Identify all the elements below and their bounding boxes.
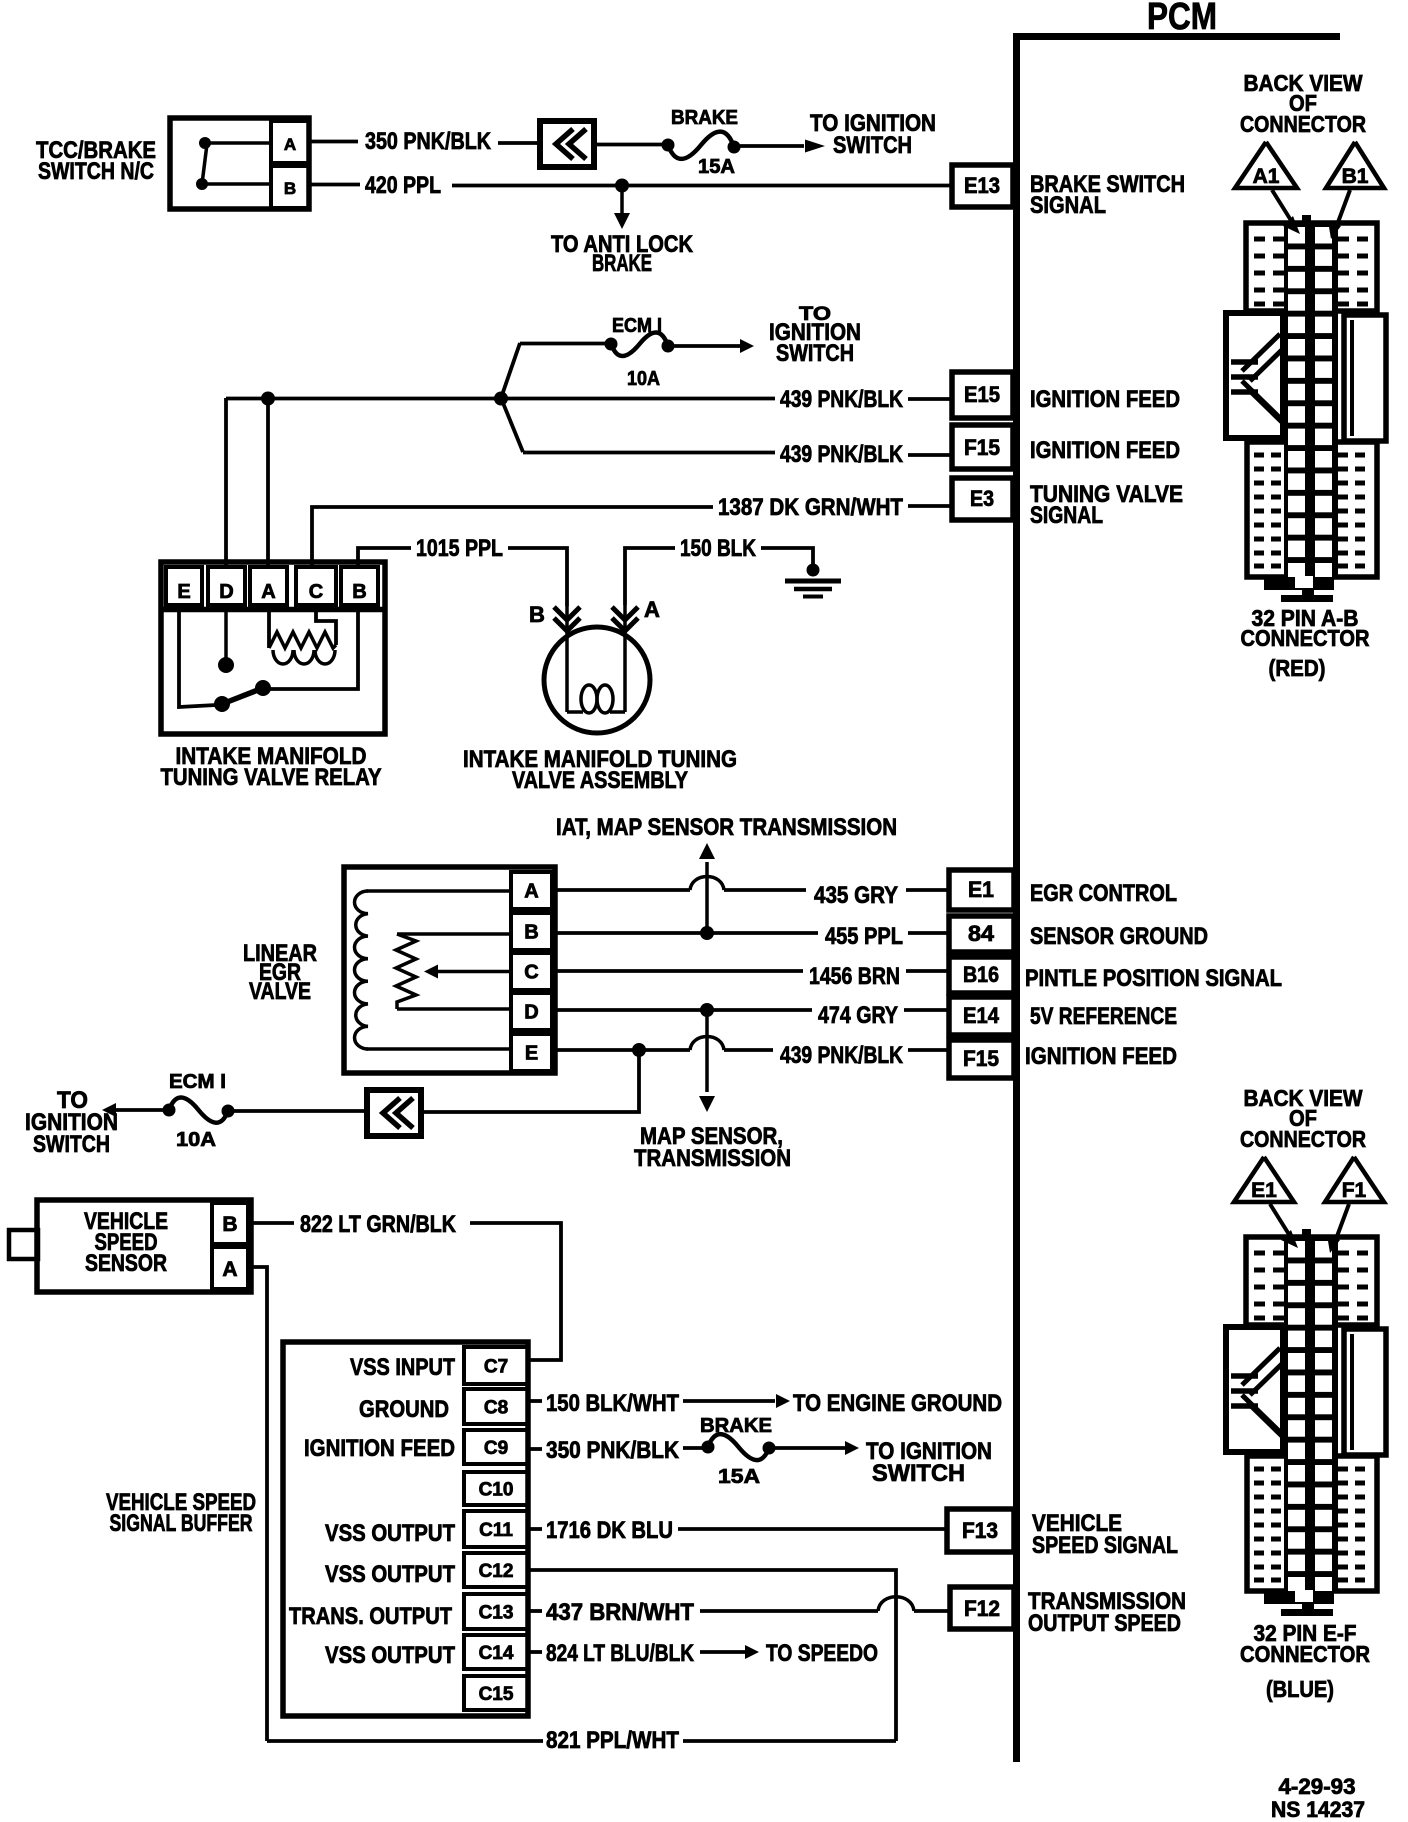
svg-text:B: B [222, 1213, 237, 1236]
svg-text:4-29-93: 4-29-93 [1279, 1774, 1356, 1799]
vehicle speed signal buffer [106, 1342, 528, 1716]
svg-text:474 GRY: 474 GRY [818, 1002, 898, 1029]
PCM pin E14 [949, 997, 1177, 1035]
svg-text:BRAKE: BRAKE [592, 250, 652, 277]
svg-text:A: A [261, 581, 275, 603]
svg-text:E: E [525, 1043, 538, 1065]
relay K1 intake manifold tuning valve relay [161, 562, 386, 791]
svg-text:C11: C11 [479, 1520, 513, 1541]
wire 1716 DK BLU [528, 1517, 947, 1544]
svg-text:420 PPL: 420 PPL [365, 172, 441, 199]
svg-text:IAT, MAP SENSOR TRANSMISSION: IAT, MAP SENSOR TRANSMISSION [556, 814, 897, 841]
svg-text:F1: F1 [1342, 1179, 1367, 1202]
arrow to anti lock brake [551, 189, 694, 277]
wire 455 PPL [552, 923, 949, 950]
svg-text:IGNITION FEED: IGNITION FEED [304, 1435, 455, 1462]
svg-text:84: 84 [968, 921, 995, 946]
wire 474 GRY [552, 1002, 949, 1029]
svg-text:GROUND: GROUND [359, 1396, 449, 1423]
svg-text:SIGNAL BUFFER: SIGNAL BUFFER [110, 1510, 253, 1537]
svg-text:IGNITION FEED: IGNITION FEED [1030, 386, 1180, 413]
wire to fuse [594, 143, 662, 147]
svg-text:E3: E3 [970, 486, 994, 511]
wire C12 VSS output loop [528, 1570, 896, 1741]
wire 439 PNK/BLK to E15 [503, 386, 952, 413]
wire 821 PPL/WHT [267, 1727, 896, 1754]
svg-text:ECM I: ECM I [169, 1071, 226, 1093]
svg-text:C12: C12 [479, 1561, 514, 1582]
svg-text:SWITCH: SWITCH [776, 340, 854, 367]
svg-text:437 BRN/WHT: 437 BRN/WHT [546, 1599, 694, 1626]
label 32 pin E-F connector [1240, 1620, 1370, 1702]
svg-text:1716 DK BLU: 1716 DK BLU [546, 1517, 673, 1544]
svg-text:A: A [284, 135, 296, 154]
svg-text:D: D [219, 581, 233, 603]
wire 821 PPL/WHT riser from sensor pin A [248, 1267, 267, 1741]
svg-text:TO SPEEDO: TO SPEEDO [766, 1640, 878, 1667]
svg-text:5V REFERENCE: 5V REFERENCE [1030, 1003, 1177, 1030]
svg-text:CONNECTOR: CONNECTOR [1240, 1641, 1370, 1667]
svg-text:SENSOR: SENSOR [85, 1250, 167, 1277]
switch TCC/brake switch N/C [36, 118, 309, 209]
arrow to ignition switch (upper) [674, 304, 861, 367]
connector key B1 [1326, 142, 1384, 239]
svg-text:C15: C15 [479, 1684, 514, 1705]
svg-text:IGNITION FEED: IGNITION FEED [1030, 437, 1180, 464]
svg-text:455 PPL: 455 PPL [825, 923, 903, 950]
svg-text:CONNECTOR: CONNECTOR [1240, 1126, 1366, 1152]
svg-text:C13: C13 [479, 1603, 514, 1624]
PCM pin E13 [952, 165, 1185, 219]
arrow to ignition switch (lower left) [25, 1087, 164, 1158]
PCM label [1147, 0, 1217, 38]
svg-text:A: A [524, 881, 538, 903]
svg-text:F15: F15 [963, 1046, 999, 1071]
svg-text:B: B [284, 179, 296, 198]
wire 150 BLK [625, 535, 820, 605]
32-pin E-F connector (blue) back view [1226, 1085, 1386, 1616]
wire 439 PNK/BLK to F15 (EGR) [552, 1037, 949, 1070]
svg-text:BRAKE: BRAKE [700, 1415, 772, 1437]
svg-text:VALVE ASSEMBLY: VALVE ASSEMBLY [512, 767, 688, 794]
svg-text:821 PPL/WHT: 821 PPL/WHT [546, 1727, 679, 1754]
svg-text:C: C [309, 581, 323, 603]
svg-text:C14: C14 [479, 1643, 514, 1664]
connector key E1 [1234, 1157, 1298, 1248]
wire 824 LT BLU/BLK [528, 1640, 878, 1667]
svg-text:SPEED SIGNAL: SPEED SIGNAL [1032, 1532, 1178, 1559]
svg-text:439 PNK/BLK: 439 PNK/BLK [780, 1042, 904, 1069]
svg-text:VALVE: VALVE [249, 978, 311, 1005]
svg-text:C10: C10 [479, 1480, 514, 1501]
svg-text:VSS OUTPUT: VSS OUTPUT [325, 1642, 455, 1669]
svg-text:SWITCH: SWITCH [33, 1131, 110, 1158]
svg-text:E15: E15 [964, 382, 1000, 407]
junction on 455 PPL [700, 926, 714, 940]
svg-text:PCM: PCM [1147, 0, 1217, 38]
svg-text:15A: 15A [718, 1466, 760, 1488]
wire 437 BRN/WHT [528, 1597, 950, 1626]
junction on 474 GRY [700, 1003, 714, 1017]
svg-text:VSS OUTPUT: VSS OUTPUT [325, 1561, 455, 1588]
inline connector symbol (350 PNK/BLK) [540, 121, 594, 167]
PCM pin E1 [949, 870, 1177, 910]
svg-text:C9: C9 [484, 1438, 508, 1459]
svg-text:B: B [529, 602, 545, 627]
svg-text:150 BLK/WHT: 150 BLK/WHT [546, 1390, 679, 1417]
drawing number [1271, 1774, 1365, 1822]
wire ignition feed trunk [226, 343, 523, 567]
svg-text:(RED): (RED) [1269, 655, 1326, 681]
wire 350 PNK/BLK (buffer) [528, 1437, 704, 1464]
connector key F1 [1325, 1157, 1384, 1253]
svg-text:CONNECTOR: CONNECTOR [1241, 625, 1370, 651]
fuse BRAKE 15A [662, 107, 741, 178]
PCM pin F12 [950, 1587, 1186, 1637]
PCM pin 84 [949, 916, 1208, 952]
arrow to IAT MAP sensor transmission [556, 814, 897, 933]
svg-text:F12: F12 [964, 1596, 1000, 1621]
svg-text:SWITCH N/C: SWITCH N/C [38, 158, 154, 185]
svg-text:VSS OUTPUT: VSS OUTPUT [325, 1520, 455, 1547]
svg-text:A: A [222, 1258, 237, 1281]
wire 439 PNK/BLK to F15 [523, 441, 952, 468]
wire 150 BLK/WHT [528, 1390, 1002, 1417]
fuse ECM I 10A (upper) [520, 315, 675, 390]
arrow to MAP sensor transmission [634, 1010, 791, 1172]
svg-text:A1: A1 [1253, 165, 1280, 188]
wire 350 PNK/BLK [309, 128, 540, 155]
arrow to ignition switch [740, 110, 936, 159]
connector key A1 [1235, 142, 1300, 234]
svg-text:B: B [352, 581, 366, 603]
svg-text:15A: 15A [698, 156, 735, 178]
svg-text:TO ENGINE GROUND: TO ENGINE GROUND [793, 1390, 1002, 1417]
svg-text:B1: B1 [1342, 165, 1369, 188]
svg-text:PINTLE POSITION SIGNAL: PINTLE POSITION SIGNAL [1025, 965, 1282, 992]
svg-text:SWITCH: SWITCH [833, 132, 912, 159]
svg-text:(BLUE): (BLUE) [1266, 1676, 1334, 1702]
wire 420 PPL [309, 172, 952, 199]
svg-text:OUTPUT SPEED: OUTPUT SPEED [1028, 1610, 1181, 1637]
wire 1015 PPL [358, 535, 567, 606]
svg-text:150 BLK: 150 BLK [680, 535, 757, 562]
ground [785, 581, 841, 597]
PCM boundary line [1013, 33, 1340, 1762]
svg-text:SWITCH: SWITCH [872, 1460, 965, 1487]
label 32 pin A-B connector [1241, 605, 1370, 681]
svg-text:C: C [524, 962, 538, 984]
svg-text:E: E [177, 581, 190, 603]
PCM pin E15 [952, 372, 1180, 418]
PCM pin E3 [952, 478, 1183, 529]
svg-text:TRANS. OUTPUT: TRANS. OUTPUT [289, 1603, 452, 1630]
PCM pin F15 (lower) [949, 1040, 1177, 1078]
arrow to ignition switch (buffer) [773, 1438, 992, 1487]
PCM pin F15 [952, 425, 1180, 469]
svg-text:TRANSMISSION: TRANSMISSION [634, 1145, 791, 1172]
svg-text:IGNITION FEED: IGNITION FEED [1025, 1043, 1177, 1070]
svg-text:CONNECTOR: CONNECTOR [1240, 111, 1366, 137]
svg-text:VSS INPUT: VSS INPUT [350, 1354, 455, 1381]
svg-text:1015 PPL: 1015 PPL [416, 535, 503, 562]
svg-text:A: A [644, 597, 660, 622]
junction ignition feed split [494, 392, 508, 406]
svg-text:C8: C8 [484, 1398, 508, 1419]
intake manifold tuning valve assembly [463, 597, 737, 794]
linear EGR valve [243, 867, 555, 1073]
inline connector symbol (ignition feed) [367, 1090, 421, 1136]
svg-text:D: D [524, 1002, 538, 1024]
svg-text:E1: E1 [1251, 1179, 1277, 1202]
fuse BRAKE 15A (buffer) [700, 1415, 776, 1488]
svg-text:435 GRY: 435 GRY [814, 882, 898, 909]
PCM pin B16 [949, 957, 1282, 993]
svg-text:439 PNK/BLK: 439 PNK/BLK [780, 441, 904, 468]
junction on 439 PNK/BLK [632, 1043, 646, 1057]
svg-text:F15: F15 [964, 435, 1000, 460]
svg-text:10A: 10A [176, 1129, 216, 1151]
junction on 420 PPL [615, 179, 629, 193]
svg-text:C7: C7 [484, 1357, 508, 1378]
svg-text:350 PNK/BLK: 350 PNK/BLK [365, 128, 492, 155]
svg-text:SENSOR GROUND: SENSOR GROUND [1030, 923, 1208, 950]
svg-text:E13: E13 [964, 173, 1000, 198]
wire 435 GRY [552, 877, 949, 910]
vehicle speed sensor [9, 1200, 251, 1292]
wire 1387 DK GRN/WHT [312, 494, 952, 567]
svg-text:F13: F13 [962, 1518, 998, 1543]
svg-text:SIGNAL: SIGNAL [1030, 192, 1106, 219]
svg-text:822 LT GRN/BLK: 822 LT GRN/BLK [300, 1211, 457, 1238]
svg-text:10A: 10A [627, 368, 660, 390]
junction at relay pin A riser [261, 392, 275, 568]
PCM pin F13 [947, 1509, 1178, 1559]
svg-text:SIGNAL: SIGNAL [1030, 502, 1103, 529]
svg-text:1387 DK GRN/WHT: 1387 DK GRN/WHT [718, 494, 903, 521]
svg-text:350 PNK/BLK: 350 PNK/BLK [546, 1437, 680, 1464]
svg-text:ECM I: ECM I [612, 315, 662, 337]
svg-text:439 PNK/BLK: 439 PNK/BLK [780, 386, 904, 413]
svg-text:B: B [524, 922, 538, 944]
svg-text:E14: E14 [963, 1003, 1000, 1028]
wire 822 LT GRN/BLK [248, 1211, 561, 1360]
svg-text:824 LT BLU/BLK: 824 LT BLU/BLK [546, 1640, 695, 1667]
svg-text:TUNING VALVE RELAY: TUNING VALVE RELAY [161, 764, 382, 791]
fuse ECM I 10A (lower) [163, 1071, 368, 1151]
svg-text:BRAKE: BRAKE [671, 107, 738, 129]
svg-text:B16: B16 [963, 962, 999, 987]
svg-text:NS 14237: NS 14237 [1271, 1797, 1365, 1822]
32-pin A-B connector (red) back view [1226, 70, 1386, 602]
svg-text:EGR CONTROL: EGR CONTROL [1030, 880, 1177, 907]
svg-text:1456 BRN: 1456 BRN [809, 963, 900, 990]
wire 1456 BRN [552, 963, 949, 990]
wire ignition feed to EGR [422, 1050, 639, 1112]
svg-text:E1: E1 [968, 877, 994, 902]
